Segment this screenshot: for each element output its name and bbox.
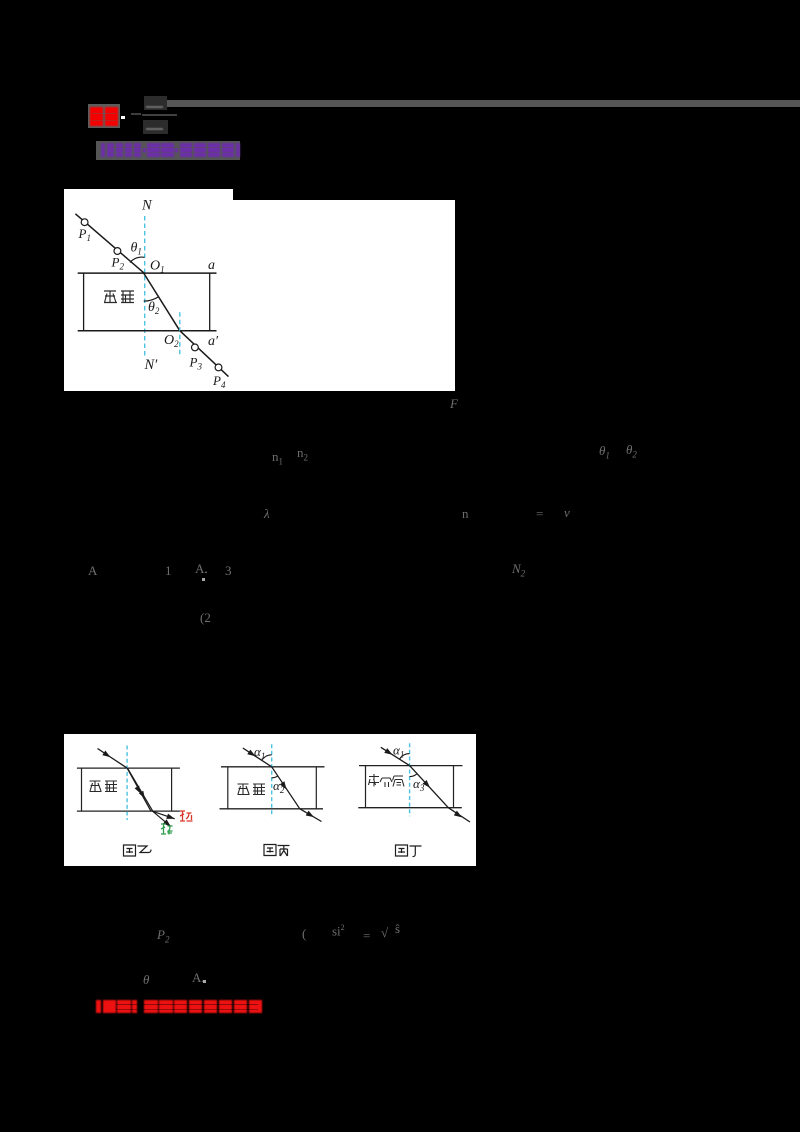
fig-ding slab bottom line <box>358 807 462 809</box>
fig-yi incident ray <box>98 749 128 769</box>
svg-text:N′: N′ <box>144 357 159 373</box>
gray highlight band behind purple source line <box>96 141 240 160</box>
exit ray O2-P4 <box>180 331 229 377</box>
fig-ding exit ray <box>448 808 470 822</box>
slab left cap <box>83 273 85 331</box>
fig-yi slab bottom line <box>77 810 180 812</box>
fig-ding caption: tu-ding <box>396 845 422 857</box>
fig-yi slab top line <box>77 767 180 769</box>
fig-ding refracted ray <box>410 766 449 808</box>
white figure background <box>64 189 455 391</box>
red answer label gray block <box>88 104 120 128</box>
diagram figure 2: three refraction sub-figures <box>64 734 476 866</box>
fig-ding slab left cap <box>365 766 367 808</box>
refracted ray O1-O2 <box>144 273 180 331</box>
fig-ding incident ray <box>381 747 410 765</box>
long gray highlight band (top formula row) <box>165 100 800 107</box>
theta2 arc <box>144 297 159 301</box>
diagram figure 1: glass slab refraction with pins P1-P4 <box>64 189 455 391</box>
bottom red topic heading blobs <box>96 1000 263 1013</box>
fig-bing slab right cap <box>315 767 317 809</box>
fig-bing dashed normal <box>271 744 273 817</box>
purple row texture slits <box>110 147 236 148</box>
fig-ding medium label (mou jie zhi) <box>369 774 405 787</box>
bright speck dots <box>202 578 205 581</box>
fig-bing caption: tu-bing <box>264 845 290 857</box>
svg-text:N: N <box>141 198 153 214</box>
label lv (green) <box>161 824 173 835</box>
theta1 arc <box>130 257 145 262</box>
fig-bing alpha1 arc <box>262 755 272 761</box>
red answer label blobs <box>90 107 119 126</box>
white figure background <box>64 734 476 866</box>
fig-bing incident ray <box>243 748 272 767</box>
fig-bing slab top line <box>221 766 325 768</box>
pin P2 <box>114 248 121 255</box>
white equals tick <box>121 116 125 119</box>
fig-bing exit ray <box>300 809 322 822</box>
fraction numerator block (sin theta1) <box>144 96 167 110</box>
fraction denominator block (sin theta2) <box>143 120 168 134</box>
fig-ding alpha3 arc <box>410 774 417 777</box>
fig-yi caption: tu-yi <box>124 845 152 856</box>
short dashed normal at O2 <box>179 312 181 355</box>
fig-yi glass label <box>90 781 118 792</box>
pin P1 <box>81 219 88 226</box>
bottom red row texture slits <box>116 1004 258 1005</box>
fig-bing slab left cap <box>227 767 229 809</box>
fig-bing slab bottom line <box>220 808 324 810</box>
pin P3 <box>192 344 199 351</box>
slab bottom surface line <box>78 330 217 332</box>
slab top surface line <box>78 272 217 274</box>
fig-bing glass label <box>238 784 266 795</box>
pin P4 <box>215 364 222 371</box>
label hong (red) <box>180 811 193 821</box>
slab right cap <box>209 273 211 331</box>
incident ray P1P2-O1 <box>75 214 144 273</box>
faint ghost text fragments (black text over black bg) <box>450 396 458 412</box>
purple source text blobs (2024 exam source) <box>101 143 241 157</box>
fig-ding alpha1 arc <box>400 754 410 760</box>
glass label (boli) <box>104 291 134 303</box>
svg-text:a: a <box>208 258 215 273</box>
fraction bar <box>142 114 177 116</box>
normal dashed line NN' <box>144 216 146 358</box>
faint equals bar <box>131 113 141 115</box>
fig-yi slab right cap <box>171 768 173 811</box>
fig-bing refracted ray <box>272 767 300 809</box>
black notch top-right <box>233 189 455 200</box>
fig-ding slab right cap <box>453 766 455 808</box>
fig-yi internal dispersed rays <box>127 768 151 811</box>
fig-ding dashed normal <box>409 743 411 816</box>
fig-yi dashed normal <box>126 746 128 821</box>
fig-yi exit ray green <box>152 811 171 827</box>
svg-text:a′: a′ <box>208 334 219 349</box>
fig-bing alpha2 arc <box>272 776 278 778</box>
fig-ding slab top line <box>359 765 463 767</box>
fig-yi slab left cap <box>81 768 83 811</box>
fig-yi exit ray red <box>152 811 175 819</box>
